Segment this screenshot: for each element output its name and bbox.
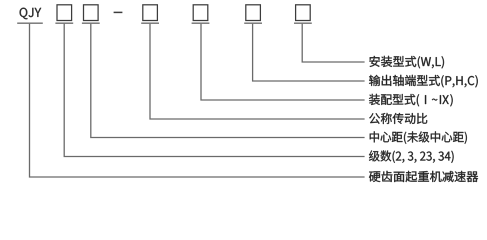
leader line from x=64.2 down to label "级数(2, 3, 23, 34)" [64,24,364,157]
label text 级数(2, 3, 23, 34) [369,150,454,163]
leader line from x=29.5 down to label "硬齿面起重机减速器" [30,24,365,177]
box 2 (designation digit placeholder) [84,5,99,21]
label text 公称传动比 [369,113,427,124]
underline under QJY [17,22,43,24]
underline under box 6 [294,22,312,24]
underline under box 3 [141,22,159,24]
leader line from x=302.2 down to label "安装型式(W,L)" [302,24,364,62]
underline under box 2 [82,22,100,24]
box 5 (designation digit placeholder) [246,5,261,21]
box 3 (designation digit placeholder) [143,5,158,21]
leader line from x=90.8 down to label "中心距(未级中心距)" [91,24,365,138]
box 1 (designation digit placeholder) [57,5,72,21]
label text 中心距(未级中心距) [370,131,467,144]
label text 硬齿面起重机减速器 [369,171,478,182]
text QJY model prefix [20,8,42,20]
leader line from x=150.0 down to label "公称传动比" [150,24,365,119]
underline under box 1 [55,22,73,24]
label text 输出轴端型式(P,H,C) [369,75,478,88]
leader line from x=201.0 down to label "装配型式(Ⅰ~Ⅸ)" [201,24,365,100]
box 6 (designation digit placeholder) [296,5,311,21]
underline under box 4 [192,22,210,24]
label text 装配型式(Ⅰ~Ⅸ) [369,94,453,107]
underline under box 5 [244,22,262,24]
box 4 (designation digit placeholder) [193,5,208,21]
dash separator in model code [114,11,123,13]
leader line from x=252.6 down to label "输出轴端型式(P,H,C)" [253,24,365,81]
label text 安装型式(W,L) [369,56,444,69]
